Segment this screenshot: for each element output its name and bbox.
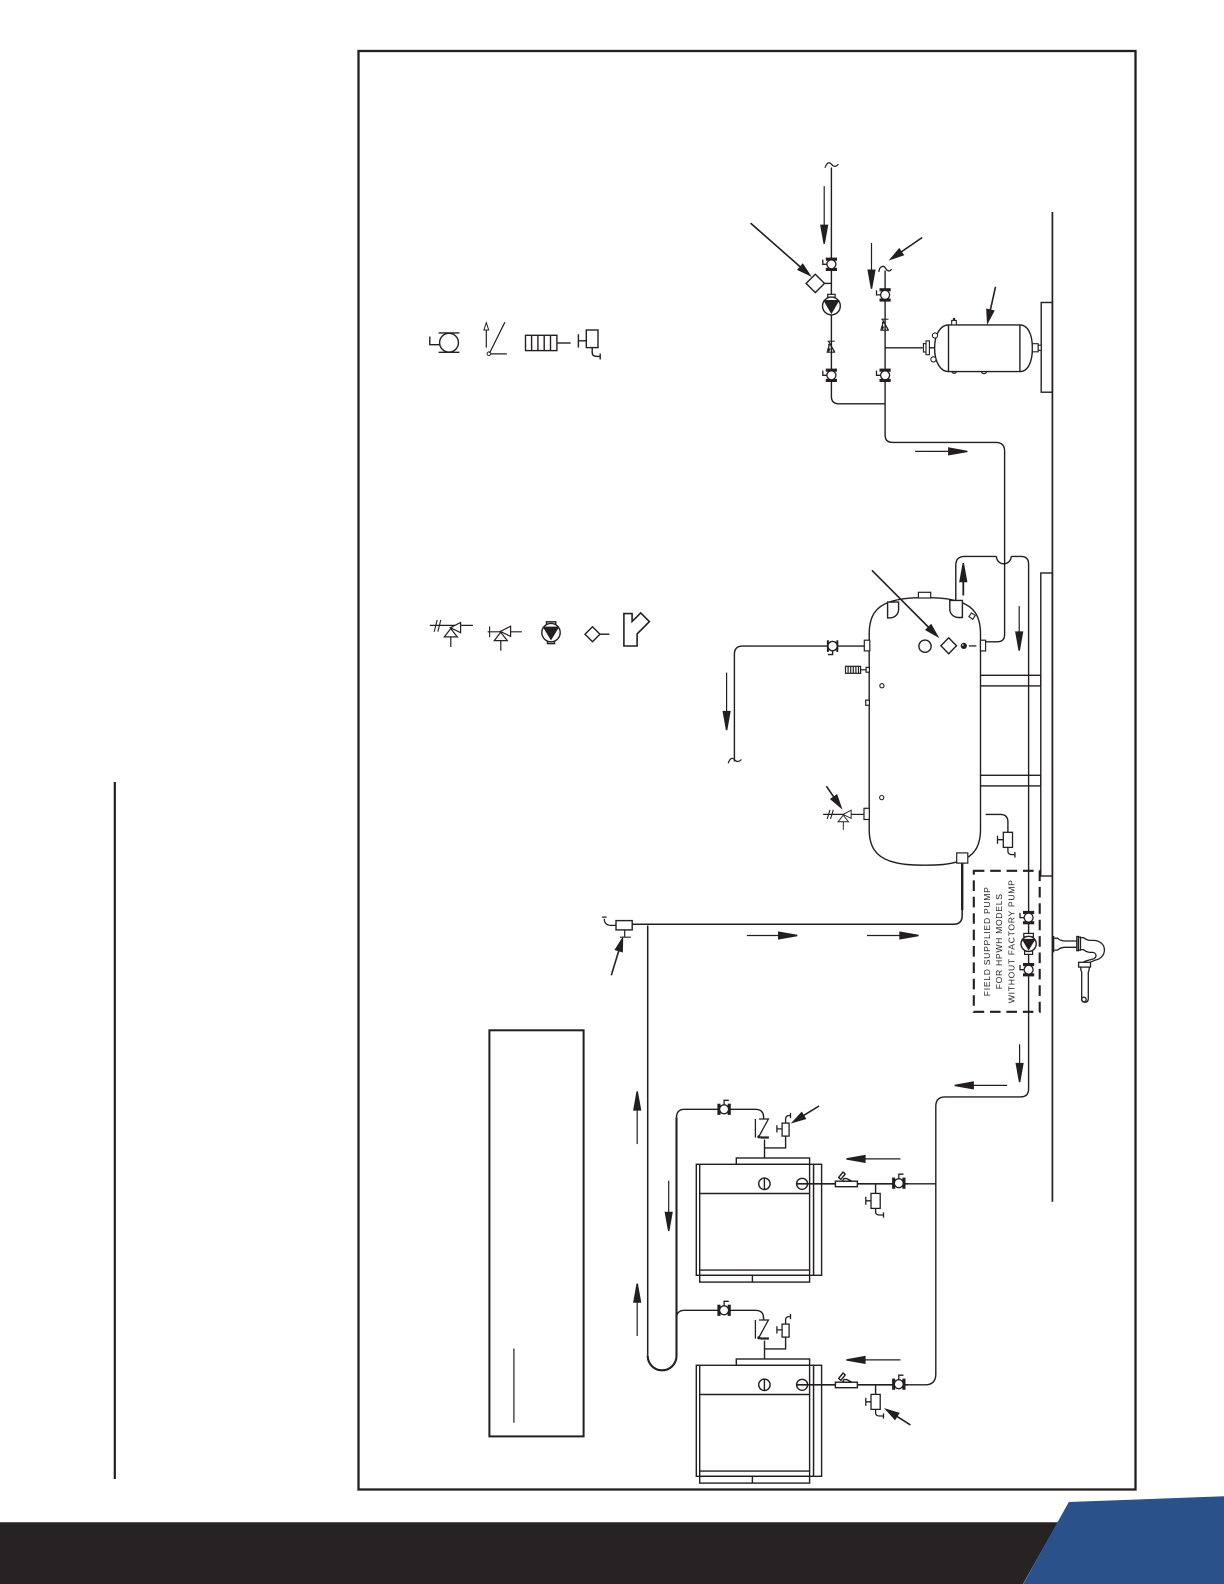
tank T&P relief valve	[823, 810, 864, 830]
legend: relief valve symbol	[578, 330, 600, 360]
down arrow on inlet stub	[726, 673, 728, 716]
run to pump drop	[1011, 556, 1028, 870]
legend: gauge cock symbol	[484, 322, 507, 355]
callout arrow to heater1 vacuum breaker	[802, 1106, 819, 1117]
legend: circulator/union symbol	[430, 333, 460, 352]
down arrow between risers	[668, 1181, 670, 1217]
tank drain: pipe from right port down	[986, 814, 1008, 832]
left arrow on cross-connect	[972, 1084, 1007, 1086]
pipe: tank top port up and over	[956, 556, 997, 601]
tank left inlet port	[864, 640, 870, 651]
callout arrow to pipe2 break	[900, 238, 923, 254]
figure border frame	[359, 51, 1136, 1490]
ball valve V2	[823, 369, 837, 381]
tank right port (sensor side)	[981, 640, 986, 651]
notes box (empty)	[489, 1030, 583, 1436]
supply downcomer with U-bend	[648, 1117, 677, 1370]
legend: T&P valve w/ pipe break	[430, 620, 473, 647]
tank bracket upper	[964, 675, 1041, 686]
tank T&P port	[864, 808, 869, 819]
ball valve above field pump	[1020, 912, 1034, 924]
tank bottom port	[957, 853, 968, 863]
legend: heating element symbol	[526, 335, 571, 350]
flow arrow down on pipe1	[823, 186, 825, 229]
pipe 1 (cold feed)	[831, 168, 885, 404]
water heater 1	[677, 1100, 909, 1282]
tank heating element	[846, 666, 870, 673]
tank top left port	[888, 602, 899, 618]
pipe 2 (makeup feed)	[885, 271, 1005, 642]
expansion tank body	[935, 325, 1033, 372]
legend: T&P valve plain	[488, 626, 522, 651]
tank gauge circle	[919, 640, 931, 652]
ball valve V4	[877, 369, 891, 381]
expansion tank right nipple to bracket	[1032, 344, 1038, 352]
flow arrows on return header	[747, 935, 780, 937]
down arrow right of tank	[1018, 606, 1020, 636]
heater 1 supply tee from riser	[904, 1183, 936, 1185]
pipe from tank bottom to heater return header	[961, 863, 963, 910]
callout arrow into tank (thermostat)	[872, 570, 928, 627]
expansion tank top nipple	[952, 320, 957, 325]
notes box inner tick	[513, 1349, 515, 1423]
return riser	[647, 926, 649, 1356]
storage tank shell	[869, 598, 980, 866]
up arrows on return riser	[636, 1108, 638, 1144]
flow arrow right on feeder run	[915, 450, 950, 452]
legend: pump	[542, 622, 560, 644]
legend: wye fitting	[624, 613, 650, 646]
thermometer diamond D1	[806, 274, 824, 292]
field pump	[1024, 933, 1034, 936]
callout arrow to heater2 outlet relief valve	[895, 1415, 910, 1425]
pump P1	[828, 294, 835, 297]
wall stub plate	[1053, 936, 1055, 952]
tank inlet pipe from left w/ break	[734, 646, 864, 761]
footer blue band	[1023, 1496, 1224, 1584]
expansion tank fitting	[923, 344, 926, 352]
expansion tank dome fittings	[932, 333, 937, 338]
callout arrow to vacuum relief	[611, 949, 619, 975]
expansion tank wall bracket	[1041, 303, 1052, 393]
tank thermometer diamond	[941, 638, 957, 654]
ball valve V3	[877, 289, 891, 301]
tank sensor wells	[880, 684, 884, 688]
tank bracket lower	[964, 775, 1041, 786]
crossover dip under vertical pipe	[996, 556, 1011, 563]
wall line	[1051, 212, 1053, 1202]
callout arrow to expansion tank	[990, 287, 995, 311]
water heater 2	[677, 1301, 909, 1483]
tee to expansion tank	[885, 347, 923, 349]
down arrow on pump drop	[1019, 1044, 1021, 1067]
ball valve below field pump	[1020, 964, 1034, 976]
ball valve V1	[823, 258, 837, 270]
tank drain valve	[998, 832, 1015, 857]
ball valve V5 on tank inlet	[827, 640, 838, 654]
tank top center nipple	[918, 592, 930, 598]
flow arrow down before V3	[871, 243, 873, 274]
pump drop to cross-connect	[904, 1012, 1029, 1385]
pipe 1 break squiggle	[825, 163, 839, 168]
hydrant body	[1054, 937, 1104, 1003]
storage tank wall rail	[1041, 573, 1053, 876]
callout arrow to thermometer D1	[751, 223, 802, 268]
up arrow at tank top pipe	[962, 578, 964, 596]
tank top right port	[950, 600, 963, 617]
tank dome nub	[969, 613, 975, 619]
svg-text:WITHOUT FACTORY PUMP: WITHOUT FACTORY PUMP	[1007, 879, 1017, 1003]
legend: thermometer diamond	[585, 627, 609, 642]
tank sensor dot and dashed link	[961, 643, 967, 649]
footer black band	[0, 1522, 1058, 1584]
vacuum relief on return header	[616, 921, 632, 930]
dashed enclosure	[974, 871, 1040, 1012]
svg-text:FOR HPWH MODELS: FOR HPWH MODELS	[994, 893, 1004, 989]
check valve CV2	[881, 319, 889, 330]
svg-text:FIELD SUPPLIED PUMP: FIELD SUPPLIED PUMP	[982, 886, 992, 996]
left margin rule	[114, 782, 116, 1479]
tank side stub	[866, 700, 870, 705]
pipe 2 break squiggle	[879, 266, 892, 272]
callout arrow to tank T&P	[826, 786, 835, 799]
check valve CV1	[827, 341, 835, 352]
